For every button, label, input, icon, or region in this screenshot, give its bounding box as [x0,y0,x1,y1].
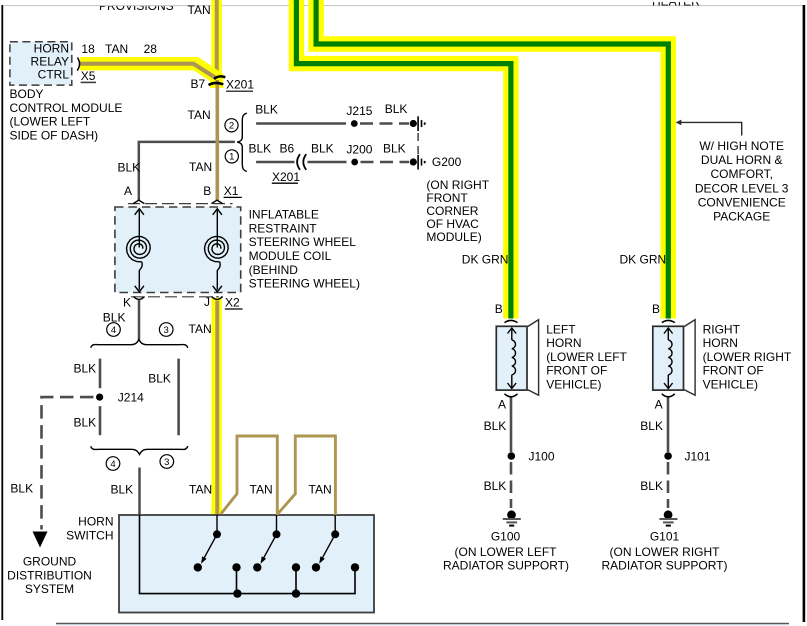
bottom strip [56,624,789,626]
wire BLK left horn to J100 [510,398,513,453]
svg-text:HORN: HORN [546,336,581,350]
svg-text:BLK: BLK [640,479,663,493]
svg-text:SWITCH: SWITCH [66,528,113,542]
wire: tan from horn relay to X201 junction (highlighted) [80,64,217,88]
label BLK circuit 1 [249,142,272,156]
label TAN upper [188,108,211,122]
clipped text HEATER [560,0,800,9]
label BLK to G100 [484,479,507,493]
ground point lower G200 [410,155,426,170]
circuit 1: wire BLK to X201 connector [256,161,294,164]
svg-text:BLK: BLK [249,142,272,156]
label BLK after J200 [383,142,406,156]
coil A-K arrow line and spiral [127,209,151,292]
svg-text:RESTRAINT: RESTRAINT [249,221,318,235]
wire BLK to horn switch [138,468,141,517]
wire BLK K to brace [138,300,141,340]
svg-text:DUAL HORN &: DUAL HORN & [701,153,783,167]
switch 2 [253,515,300,593]
svg-text:SYSTEM: SYSTEM [25,582,74,596]
bus junction dot 1 [233,589,241,597]
svg-text:CORNER: CORNER [426,204,478,218]
wire BLK circuit4 upper segment [99,359,102,389]
label X5 [81,69,96,83]
bus junction dot 2 [292,589,300,597]
dashed wire J214 to ground distribution [42,397,94,529]
svg-text:(ON LOWER LEFT: (ON LOWER LEFT [454,545,557,559]
label B [203,184,211,198]
svg-text:(LOWER LEFT: (LOWER LEFT [10,115,91,129]
svg-text:G101: G101 [650,530,680,544]
svg-text:BLK: BLK [484,479,507,493]
svg-text:CONVENIENCE: CONVENIENCE [698,195,786,209]
svg-text:CONTROL MODULE: CONTROL MODULE [10,101,123,115]
ground G100 [503,510,521,526]
svg-text:SIDE OF DASH): SIDE OF DASH) [10,128,99,142]
svg-text:VEHICLE): VEHICLE) [546,378,601,392]
label B6 [280,142,295,156]
svg-text:G100: G100 [491,530,521,544]
relay output terminal [77,58,79,71]
left horn box [496,326,527,390]
svg-text:W/ HIGH NOTE: W/ HIGH NOTE [699,139,784,153]
wire tan J to horn switch (highlighted) [211,297,222,516]
right horn coil [664,328,673,389]
svg-text:X1: X1 [224,184,239,198]
svg-text:2: 2 [229,121,234,132]
label X1 [224,184,242,198]
clipped text PROVISIONS [4,0,803,13]
splice J100 [508,450,555,464]
svg-text:BLK: BLK [111,483,134,497]
right horn terminal A [655,394,675,412]
svg-text:BLK: BLK [118,161,141,175]
svg-text:1: 1 [229,152,234,163]
label BLK after J215 [385,102,408,116]
svg-text:MODULE COIL: MODULE COIL [249,249,332,263]
svg-text:J: J [204,295,210,309]
label X201 at junction [226,78,254,92]
circled 1 [225,150,238,163]
svg-text:LEFT: LEFT [546,322,576,336]
svg-text:DISTRIBUTION: DISTRIBUTION [7,568,92,582]
svg-text:BLK: BLK [74,416,97,430]
right horn terminal B [652,302,675,323]
wire BLK circuit 3 [177,359,180,436]
label DK GRN left [462,253,509,267]
svg-text:BLK: BLK [311,142,334,156]
label TAN 2 [250,483,273,497]
svg-text:(LOWER RIGHT: (LOWER RIGHT [703,350,792,364]
svg-text:4: 4 [111,325,116,336]
svg-text:TAN: TAN [189,160,212,174]
svg-text:PACKAGE: PACKAGE [713,210,770,224]
svg-text:J100: J100 [529,450,555,464]
label TAN 3 [309,483,332,497]
left horn coil [508,328,517,389]
svg-text:CTRL: CTRL [38,68,70,82]
svg-text:BLK: BLK [10,482,33,496]
splice J101 [664,450,711,464]
circled 4 upper [107,323,121,337]
label BLK above switch [111,483,134,497]
dashed link between ground points [417,133,419,156]
svg-text:B: B [495,302,503,316]
svg-text:TAN: TAN [188,108,211,122]
svg-text:HORN: HORN [34,42,69,56]
svg-text:3: 3 [164,325,169,336]
svg-text:RIGHT: RIGHT [703,322,741,336]
svg-text:28: 28 [144,42,158,56]
svg-text:RELAY: RELAY [31,55,69,69]
label BODY CONTROL MODULE [10,87,123,142]
label G200 [426,155,489,244]
svg-text:J200: J200 [346,143,372,157]
svg-text:RADIATOR SUPPORT): RADIATOR SUPPORT) [443,559,569,573]
svg-text:B: B [203,184,211,198]
connector X2 row [131,297,223,300]
brace for circuits 2 and 1 [237,113,247,171]
svg-text:X5: X5 [81,69,96,83]
splice J214 [96,391,144,405]
switch 1 [194,515,241,593]
svg-text:BLK: BLK [74,362,97,376]
label W/ HIGH NOTE package [695,139,789,224]
svg-text:(LOWER LEFT: (LOWER LEFT [546,350,627,364]
connector X201 in-line marks [297,154,306,170]
svg-text:DECOR LEVEL 3: DECOR LEVEL 3 [695,181,789,195]
coil module label [249,208,360,291]
label BLK circuit 2 [255,103,278,117]
svg-text:BLK: BLK [255,103,278,117]
label DK GRN right [620,253,667,267]
svg-text:TAN: TAN [309,483,332,497]
svg-text:X201: X201 [226,78,254,92]
label G100 [443,530,569,573]
label BLK before J200 [311,142,334,156]
svg-text:TAN: TAN [105,42,128,56]
wire: dk grn to right horn (highlighted) [316,0,668,319]
svg-text:BLK: BLK [148,372,171,386]
left horn flare [528,320,539,396]
coil B-J arrow line and spiral [205,209,229,292]
dashed wire BLK J215 to G200 [360,122,409,125]
label TAN relay wire [105,42,128,56]
svg-text:BLK: BLK [640,419,663,433]
svg-text:TAN: TAN [189,483,212,497]
svg-text:4: 4 [110,459,115,470]
svg-text:A: A [655,398,663,412]
label TAN below X2 [189,322,212,336]
label LEFT HORN [546,322,627,391]
circled 3 upper [159,323,173,337]
wire BLK right horn to J101 [667,398,670,453]
callout pointer to right horn wire [676,120,742,136]
svg-text:B6: B6 [280,142,295,156]
svg-text:INFLATABLE: INFLATABLE [249,208,319,222]
label TAN near B [189,160,212,174]
horn switch box [119,515,374,613]
splice X201 connector marks at B7 [209,76,226,85]
svg-text:FRONT OF: FRONT OF [703,364,764,378]
ground point upper (to G200) [410,116,426,131]
svg-text:STEERING WHEEL: STEERING WHEEL [249,235,357,249]
label J [204,295,210,309]
svg-text:TAN: TAN [189,322,212,336]
svg-text:A: A [124,184,132,198]
splice J215 [346,104,372,127]
label RIGHT HORN [703,322,792,391]
svg-text:BLK: BLK [385,102,408,116]
circled 4 lower [106,457,120,471]
svg-text:RADIATOR SUPPORT): RADIATOR SUPPORT) [601,559,727,573]
svg-text:(ON RIGHT: (ON RIGHT [426,178,489,192]
label BLK to G101 [640,479,663,493]
label B7 [191,77,206,91]
svg-text:STEERING WHEEL): STEERING WHEEL) [249,277,360,291]
inflatable restraint coil module box [115,207,241,293]
svg-text:J215: J215 [346,104,372,118]
dashed wire J101 to G101 [667,462,670,508]
svg-text:VEHICLE): VEHICLE) [703,378,758,392]
svg-text:B: B [652,302,660,316]
svg-text:FRONT: FRONT [426,191,468,205]
label BLK left horn [484,419,507,433]
svg-text:MODULE): MODULE) [426,230,481,244]
svg-text:FRONT OF: FRONT OF [546,364,607,378]
svg-text:BLK: BLK [383,142,406,156]
svg-text:DK GRN: DK GRN [462,253,509,267]
label TAN top [188,3,211,17]
svg-text:G200: G200 [432,155,462,169]
switch 3 [312,515,359,572]
wire: dk grn to left horn (highlighted) [296,0,511,319]
label BLK circuit 4 lower [74,416,97,430]
wire: tan vertical from top to X201 (highlighted) [211,0,221,77]
svg-text:DK GRN: DK GRN [620,253,667,267]
label BLK near A [118,161,141,175]
svg-text:HORN: HORN [78,515,113,529]
svg-text:(ON LOWER RIGHT: (ON LOWER RIGHT [610,545,721,559]
wire BLK X201 to J200 [308,161,347,164]
svg-text:TAN: TAN [188,3,211,17]
arrow to ground distribution system [33,532,48,548]
connector X1 row [128,200,233,203]
svg-text:X201: X201 [272,170,300,184]
wire BLK circuit4 lower segment [99,406,102,435]
svg-text:K: K [123,296,131,310]
svg-text:TAN: TAN [250,483,273,497]
svg-text:BLK: BLK [484,419,507,433]
svg-text:(BEHIND: (BEHIND [249,263,299,277]
switch bus wire [140,515,356,594]
right horn box [653,326,684,390]
wire BLK from brace to terminal A [139,142,235,200]
label BLK circuit 4 upper [74,362,97,376]
svg-text:3: 3 [164,457,169,468]
svg-text:18: 18 [81,42,95,56]
svg-text:A: A [498,398,506,412]
label BLK right horn [640,419,663,433]
circled 3 lower [160,455,174,469]
label G101 [601,530,727,573]
circled 2 [225,119,238,132]
svg-text:B7: B7 [191,77,206,91]
frame left border [1,5,3,620]
svg-text:X2: X2 [225,296,240,310]
relay text HORN RELAY CTRL [31,42,70,82]
svg-text:GROUND: GROUND [23,555,77,569]
dashed wire J100 to G100 [510,462,513,508]
left horn terminal A [498,394,518,412]
body control module HORN RELAY box [10,42,72,85]
left horn terminal B [495,302,518,323]
merge brace circuits 4 and 3 [91,446,188,454]
wire tan loop 1 [221,436,277,515]
label TAN 1 [189,483,212,497]
dashed wire BLK J200 to G200 [361,161,410,164]
label X2 [225,296,243,310]
circuit 2: wire BLK to J215 [256,122,346,125]
frame right border [803,5,806,622]
label K [123,296,131,310]
svg-text:J214: J214 [118,391,144,405]
label BLK below K [103,311,126,325]
label X201 row 1 [272,170,301,184]
label BLK ground wire [10,482,33,496]
wire tan loop 2 [278,436,336,515]
brace splitting to circuits 4 and 3 [91,340,188,348]
label GROUND DISTRIBUTION SYSTEM [7,555,92,597]
label A [124,184,132,198]
frame top border [3,5,803,7]
svg-text:J101: J101 [685,450,711,464]
label HORN SWITCH [66,515,113,543]
ground G101 [659,510,677,526]
label 28 [144,42,158,56]
right horn flare [684,320,695,396]
svg-text:COMFORT,: COMFORT, [710,167,772,181]
splice J200 [346,143,372,166]
svg-text:OF HVAC: OF HVAC [426,217,479,231]
svg-text:HORN: HORN [703,336,738,350]
label 18 [81,42,95,56]
label BLK circuit 3 [148,372,171,386]
wire: tan vertical X201 to X1 terminal B [216,80,220,201]
svg-text:BODY: BODY [10,87,44,101]
